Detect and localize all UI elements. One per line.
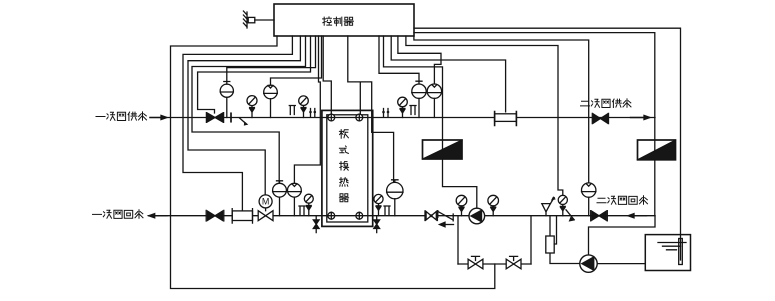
thermometer G2 on primary supply <box>247 96 257 118</box>
pi symbol on primary return <box>299 206 305 215</box>
bypass right riser <box>530 216 532 264</box>
check valve on secondary return <box>566 210 575 222</box>
union tick on supply <box>230 113 232 121</box>
wire R6: controller bus down right side through REG2 to return end <box>414 33 655 216</box>
wire R5: controller bus to small gauge H <box>406 36 563 195</box>
butterfly valve V2 on secondary supply <box>592 113 608 123</box>
bypass valve B2 <box>506 256 521 268</box>
wire funnel left to HX top-left port <box>323 36 331 114</box>
HX inner shell <box>327 115 368 222</box>
HX bolt bottom-right <box>356 212 363 219</box>
return outlet arrow <box>154 215 167 217</box>
bypass line <box>458 263 531 265</box>
inlet arrow <box>150 117 162 119</box>
return end drop to make-up pump <box>589 216 656 255</box>
flow arrow below flexible joint <box>440 222 454 227</box>
secondary supply flow arrow <box>631 117 646 119</box>
flow meter on secondary supply <box>495 112 517 126</box>
wire W5: controller to supply valve V1 stem <box>198 36 311 113</box>
wire W4: controller to gauge A on primary return <box>192 36 306 183</box>
wire R4 branch to gauge D <box>398 36 441 84</box>
pi symbol on supply left <box>289 106 295 115</box>
controller label 控制器 <box>323 17 354 26</box>
gauge A on primary return <box>273 181 287 216</box>
motor valve M bowtie <box>258 208 273 221</box>
wire to gauge B from center drop <box>294 36 320 183</box>
tank water level lines <box>658 243 686 250</box>
secondary return flow arrow <box>634 215 647 217</box>
wire W2: controller to flow meter FE top <box>183 36 292 211</box>
outdoor temperature sensor T0 (wall mark + box) <box>243 11 247 28</box>
wire funnel right + branch to HX top-right port and heat meter gauge <box>348 36 394 182</box>
wire to gauge G1 on primary supply <box>227 36 316 82</box>
primary return pipe <box>149 215 656 217</box>
pi symbol right of HX <box>384 206 390 215</box>
gauge B on primary return <box>288 183 302 215</box>
wire W3: controller to motor valve M <box>188 36 300 195</box>
HX bolt bottom-left <box>328 212 335 219</box>
small gauge H <box>558 195 567 215</box>
secondary return label 二次网回水 <box>597 196 648 205</box>
make-up riser with softener <box>550 216 580 264</box>
wire R4: controller bus to gauge G on secondary return <box>414 36 589 183</box>
wire R1: controller to gauge C top <box>379 36 419 81</box>
gauge D on secondary supply <box>427 84 441 118</box>
pi symbol on secondary supply <box>410 106 416 115</box>
wire R2: controller through regulator REG1 to pump P1 top <box>384 36 477 209</box>
flexible joint on secondary return <box>438 211 453 221</box>
heat meter REG1 (diagonal rectangle) on wire R2 <box>423 140 463 159</box>
butterfly valve V4 on secondary return <box>425 211 437 221</box>
primary supply pipe <box>150 117 655 119</box>
gauge E left of pump <box>456 195 467 215</box>
wire sensor to controller <box>255 19 274 21</box>
water tank <box>645 235 690 271</box>
thermometer G7 right of HX <box>374 194 383 215</box>
HX bolt top-right <box>356 114 363 121</box>
gauge G3 on primary supply <box>264 85 278 117</box>
motor valve M circle <box>259 195 272 208</box>
wire to gauge G3 on primary supply <box>271 36 322 85</box>
drain valve D2 below return <box>374 216 380 233</box>
bypass valve B1 <box>468 256 483 268</box>
softener rect on make-up riser <box>546 216 557 253</box>
make-up pump P2 <box>580 255 597 272</box>
tank level sensor stick <box>679 239 683 265</box>
flow meter FE on primary return <box>232 209 252 223</box>
butterfly valve V1 on primary supply <box>206 113 223 123</box>
heat meter display gauge (large) <box>387 180 403 216</box>
bypass left riser <box>457 216 459 264</box>
gauge F right of pump <box>488 195 499 215</box>
thermometer G4 on primary supply <box>299 96 309 118</box>
primary return label 一次网回水 <box>93 210 144 219</box>
secondary supply label 二次网供水 <box>581 99 632 108</box>
HX label 板式换热器 vertical <box>339 130 348 202</box>
circulation pump P1 <box>469 208 485 224</box>
HX bolt top-left <box>328 114 335 121</box>
heat meter REG2 (diagonal rectangle) on right riser <box>638 140 676 160</box>
butterfly valve V3 on primary return <box>206 210 224 221</box>
primary supply label 一次网供水 <box>96 112 147 121</box>
controller U1 box <box>274 4 414 36</box>
gauge G1 (flow/pressure) on primary supply <box>220 82 233 118</box>
gauge G on secondary return <box>582 183 596 216</box>
tick pair with dots on supply <box>309 109 316 118</box>
thermometer G5 on secondary supply <box>398 97 408 117</box>
plate heat exchanger HX outer shell <box>322 110 373 226</box>
svg-text:M: M <box>262 197 270 207</box>
thermometer G6 on primary return <box>304 194 313 216</box>
butterfly valve V5 on secondary return <box>591 211 608 221</box>
safety valve SV on secondary return <box>542 196 556 216</box>
gauge C on secondary supply <box>412 81 426 117</box>
wire W1 border loop: controller to bottom-left, bottom, up to bypass <box>171 36 495 289</box>
drain valve D1 below return <box>313 216 319 233</box>
wire R7: controller to tank level sensor <box>414 28 681 260</box>
pump P2 to tank pipe <box>597 263 645 265</box>
drain check mark on supply <box>240 118 249 126</box>
tick pair with dots right of HX <box>382 109 389 118</box>
wire R3: controller to gauge F right of pump <box>391 36 505 112</box>
